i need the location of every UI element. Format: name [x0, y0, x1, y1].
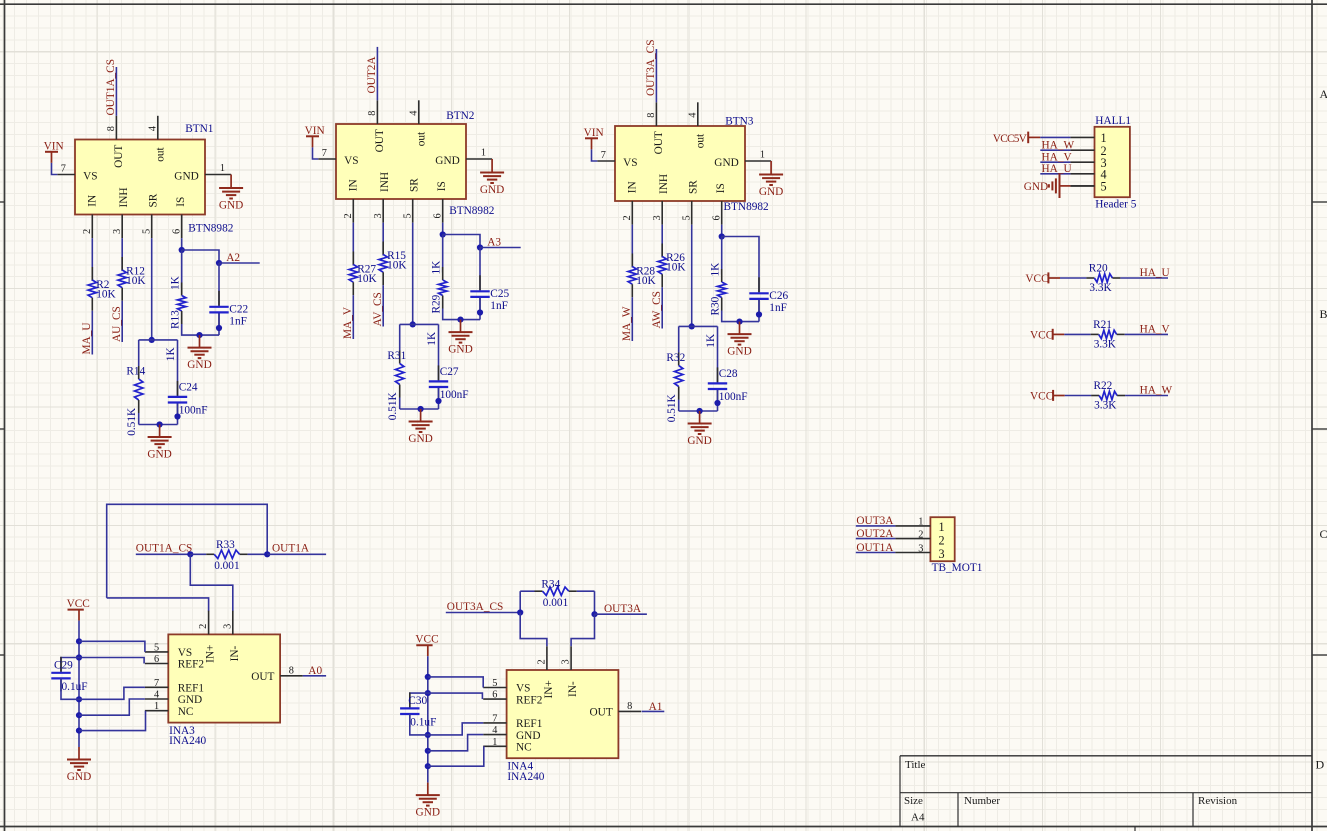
wire BTN1 pin 3 to resistor R12 — [121, 238, 123, 271]
svg-text:IN-: IN- — [567, 681, 579, 697]
HALL1 pin 4 stub — [1070, 173, 1094, 175]
junction at OUT3A_CS node — [517, 609, 523, 615]
ground symbol below INA4 VCC rail — [427, 783, 429, 796]
wire BTN2 IS junction to A3 node — [443, 235, 480, 248]
svg-text:INA240: INA240 — [507, 771, 544, 783]
BTN2 pin 1 stub — [466, 158, 492, 160]
resistor R30 1K (vertical) on IS pin — [721, 237, 723, 275]
svg-text:VS: VS — [344, 155, 358, 167]
wire BTN1 IS junction to A2 node — [182, 250, 219, 263]
svg-text:7: 7 — [154, 678, 159, 689]
power port VCC at INA4 — [427, 645, 429, 656]
BTN2 pin 6 stub — [442, 199, 444, 223]
wire net OUT3A_CS stub — [446, 612, 520, 614]
svg-text:R34: R34 — [541, 579, 560, 591]
svg-text:1K: 1K — [169, 275, 181, 290]
wire SR node horizontal rail — [139, 339, 178, 341]
wire BTN1 pin 2 to resistor R2 — [91, 238, 93, 281]
junction at OUT1A_CS node — [187, 551, 193, 557]
svg-text:REF2: REF2 — [516, 694, 543, 706]
junction at SR ground tap — [418, 406, 424, 412]
junction on VCC rail of INA3 — [76, 638, 82, 644]
svg-text:HA_W: HA_W — [1042, 139, 1075, 151]
svg-text:R22: R22 — [1094, 380, 1113, 392]
junction on VCC rail of INA4 — [425, 690, 431, 696]
resistor R31 0.51K (vertical) — [399, 324, 401, 350]
svg-text:SR: SR — [409, 178, 421, 192]
INA4 pin 1 stub — [483, 745, 506, 747]
svg-text:BTN8982: BTN8982 — [188, 222, 234, 234]
junction on VCC rail of INA3 — [76, 654, 82, 660]
wire BTN3 pin 3 to resistor R26 — [661, 225, 663, 258]
svg-text:1: 1 — [492, 737, 497, 748]
wire VCC rail to INA3 pin VS — [79, 641, 145, 652]
svg-text:SR: SR — [148, 193, 160, 207]
svg-text:OUT3A_CS: OUT3A_CS — [645, 40, 657, 97]
junction below capacitor C27 — [435, 398, 441, 404]
BTN2 pin 7 stub — [318, 158, 336, 160]
power port VCC5V at HALL1 pin 1 — [1027, 132, 1029, 144]
BTN3 pin 7 stub — [597, 160, 615, 162]
svg-text:1K: 1K — [430, 260, 442, 275]
INA4 pin 6 stub — [483, 698, 506, 700]
ground rail of SR branch — [139, 424, 178, 426]
capacitor C26 1nF — [758, 277, 760, 292]
wire OUT3A sense loop top with R34 — [519, 591, 521, 612]
junction at node A2 — [216, 260, 222, 266]
wire VCC rail to INA4 pin REF1 — [428, 723, 483, 735]
svg-text:VCC: VCC — [1030, 330, 1053, 342]
svg-text:IN-: IN- — [229, 645, 241, 661]
resistor R33 0.001 shunt (horizontal) — [190, 553, 206, 555]
svg-text:INA240: INA240 — [169, 735, 206, 747]
junction at OUT1A node — [264, 551, 270, 557]
INA4 pin 5 stub — [483, 687, 506, 689]
svg-text:6: 6 — [433, 213, 444, 218]
svg-text:R21: R21 — [1093, 319, 1112, 331]
junction at IS ground tap — [457, 317, 463, 323]
junction below capacitor C25 — [477, 309, 483, 315]
svg-text:0.001: 0.001 — [543, 597, 568, 609]
resistor R26 10K (vertical) — [661, 244, 663, 257]
junction at node A3 — [477, 244, 483, 250]
svg-text:5: 5 — [403, 213, 414, 218]
svg-text:10K: 10K — [126, 275, 146, 287]
wire OUT1A sense loop top — [107, 504, 268, 598]
svg-text:Revision: Revision — [1198, 795, 1238, 807]
svg-text:BTN8982: BTN8982 — [449, 205, 495, 217]
svg-text:1K: 1K — [426, 331, 438, 346]
svg-text:OUT1A: OUT1A — [856, 542, 894, 554]
svg-text:TB_MOT1: TB_MOT1 — [932, 562, 983, 574]
ground symbol at BTN1 pin 1 — [230, 187, 232, 189]
svg-text:Title: Title — [905, 759, 926, 771]
op-amp BTN2 BTN8982 half-bridge IC body — [336, 124, 466, 199]
svg-text:1nF: 1nF — [229, 316, 247, 328]
wire BTN1 pin 6 down to junction — [181, 238, 183, 250]
power port VIN at BTN2 — [312, 136, 314, 147]
INA3 pin 8 stub — [280, 675, 303, 677]
wire net OUT1A_CS stub — [136, 553, 191, 555]
svg-text:R31: R31 — [387, 350, 406, 362]
BTN2 pin 5 stub — [412, 199, 414, 223]
wire VCC rail to INA3 pin NC — [79, 711, 146, 731]
svg-text:OUT3A_CS: OUT3A_CS — [447, 601, 504, 613]
svg-text:VIN: VIN — [584, 127, 604, 139]
connector TB_MOT1 terminal block body — [930, 517, 954, 561]
BTN3 pin 3 stub — [661, 201, 663, 225]
svg-text:GND: GND — [714, 157, 738, 169]
svg-text:GND: GND — [759, 186, 783, 198]
svg-text:0.1uF: 0.1uF — [410, 716, 436, 728]
svg-text:OUT: OUT — [374, 129, 386, 152]
svg-text:VS: VS — [83, 171, 97, 183]
svg-text:GND: GND — [147, 449, 171, 461]
svg-text:7: 7 — [322, 148, 327, 159]
title block frame — [900, 756, 1312, 831]
BTN3 pin 4 stub — [697, 102, 699, 126]
junction below capacitor C26 — [756, 311, 762, 317]
svg-text:8: 8 — [106, 126, 117, 131]
svg-text:HA_V: HA_V — [1140, 323, 1171, 335]
svg-text:A4: A4 — [911, 812, 925, 824]
BTN2 pin 4 stub — [418, 100, 420, 124]
svg-text:NC: NC — [516, 742, 532, 754]
svg-text:VCC5V: VCC5V — [993, 133, 1028, 145]
junction on VCC rail of INA3 — [76, 696, 82, 702]
svg-text:VCC: VCC — [67, 598, 90, 610]
ground symbol below INA3 VCC rail — [78, 747, 80, 760]
wire VCC rail to INA4 pin GND — [428, 735, 483, 751]
resistor R21 3.3K (horizontal) — [1091, 333, 1099, 335]
BTN3 pin 6 stub — [721, 201, 723, 225]
wire resistor R2 to net label MA_U — [91, 311, 93, 355]
resistor R14 0.51K (vertical) — [138, 340, 140, 366]
wire R13 bottom rail to ground — [182, 324, 219, 335]
wire BTN2 pin 1 to ground — [491, 159, 493, 172]
ground symbol on SR branch of BTN3 — [699, 411, 701, 424]
svg-text:1nF: 1nF — [490, 300, 508, 312]
svg-text:3.3K: 3.3K — [1094, 400, 1117, 412]
svg-text:1: 1 — [154, 701, 159, 712]
svg-text:REF1: REF1 — [516, 718, 542, 730]
junction at IS ground tap — [736, 319, 742, 325]
svg-text:OUT: OUT — [590, 707, 613, 719]
svg-text:NC: NC — [178, 706, 194, 718]
svg-text:IN+: IN+ — [205, 645, 217, 663]
wire BTN2 pin 3 to resistor R15 — [382, 223, 384, 256]
svg-text:HA_V: HA_V — [1042, 151, 1073, 163]
wire R29 bottom rail to ground — [443, 309, 480, 320]
wire net OUT3A to TB_MOT1 pin 1 — [856, 525, 896, 527]
INA3 pin 6 stub — [145, 663, 168, 665]
wire resistor R27 to net label MA_V — [352, 295, 354, 339]
INA3 pin 1 stub — [145, 710, 168, 712]
BTN2 pin 2 stub — [352, 199, 354, 223]
connector HALL1 Header 5 body — [1095, 127, 1130, 197]
wire VCC rail to INA3 pin REF1 — [79, 687, 145, 699]
svg-text:OUT1A_CS: OUT1A_CS — [136, 543, 193, 555]
svg-text:2: 2 — [82, 229, 93, 234]
BTN1 pin 7 stub — [57, 174, 75, 176]
resistor R12 10K (vertical) — [121, 257, 123, 270]
INA3 pin 3 stub — [232, 611, 234, 635]
power port VIN at BTN1 — [51, 152, 53, 163]
svg-text:A2: A2 — [226, 252, 240, 264]
svg-text:IN: IN — [347, 179, 359, 191]
wire BTN1 pin 1 to ground — [230, 175, 232, 188]
ground symbol on SR branch of BTN1 — [159, 425, 161, 438]
INA3 pin 5 stub — [145, 651, 168, 653]
svg-text:IN: IN — [626, 181, 638, 193]
wire BTN2 pin 6 down to junction — [442, 223, 444, 235]
junction on VCC rail of INA3 — [76, 728, 82, 734]
wire net HA_U to HALL1 pin 4 — [1040, 173, 1070, 175]
svg-text:VIN: VIN — [44, 141, 64, 153]
svg-text:OUT1A: OUT1A — [272, 543, 310, 555]
svg-text:OUT: OUT — [251, 671, 274, 683]
svg-text:4: 4 — [148, 126, 159, 131]
svg-text:GND: GND — [727, 346, 751, 358]
capacitor C25 1nF — [479, 275, 481, 290]
svg-text:10K: 10K — [666, 262, 686, 274]
svg-text:4: 4 — [154, 690, 159, 701]
wire sense loop to INA3 pin 2 — [107, 598, 209, 611]
svg-text:SR: SR — [688, 180, 700, 194]
BTN3 pin 5 stub — [691, 201, 693, 225]
svg-text:1K: 1K — [709, 262, 721, 277]
svg-text:OUT1A_CS: OUT1A_CS — [105, 59, 117, 116]
svg-text:4: 4 — [688, 113, 699, 118]
wire VIN to BTN3 pin 7 — [592, 149, 598, 161]
resistor R2 10K (vertical) — [91, 267, 93, 280]
svg-text:1: 1 — [939, 520, 945, 534]
wire resistor R20 to net label HA_U — [1120, 277, 1168, 279]
wire net OUT3A stub — [595, 613, 647, 615]
wire HALL1 pin 5 to ground — [1070, 185, 1094, 187]
wire resistor R21 to net label HA_V — [1125, 333, 1168, 335]
BTN1 pin 5 stub — [151, 215, 153, 239]
svg-text:out: out — [695, 133, 707, 148]
BTN1 pin 4 stub — [157, 116, 159, 140]
svg-text:REF2: REF2 — [178, 659, 205, 671]
svg-text:R33: R33 — [216, 539, 235, 551]
svg-text:3: 3 — [112, 229, 123, 234]
svg-text:HA_U: HA_U — [1042, 163, 1072, 175]
svg-text:GND: GND — [174, 171, 198, 183]
svg-text:OUT2A: OUT2A — [856, 528, 894, 540]
capacitor C30 0.1uF decoupling — [410, 693, 428, 707]
svg-text:4: 4 — [409, 111, 420, 116]
wire SR node horizontal rail — [400, 323, 439, 325]
svg-text:HA_U: HA_U — [1140, 267, 1170, 279]
svg-text:R13: R13 — [169, 310, 181, 329]
svg-text:AW_CS: AW_CS — [651, 291, 663, 328]
svg-text:R32: R32 — [666, 352, 685, 364]
capacitor C28 100nF — [717, 326, 719, 382]
resistor R29 1K (vertical) on IS pin — [442, 235, 444, 273]
svg-text:BTN8982: BTN8982 — [724, 201, 770, 213]
INA3 pin 7 stub — [145, 686, 168, 688]
capacitor C22 1nF — [218, 291, 220, 306]
junction at SR ground tap — [157, 421, 163, 427]
wire capacitor C26 to ground rail — [758, 300, 760, 322]
svg-text:1: 1 — [481, 147, 486, 158]
power port VCC at R21 — [1052, 329, 1054, 340]
svg-text:IN: IN — [86, 195, 98, 207]
VCC rail wire at INA3 — [78, 621, 80, 747]
svg-text:6: 6 — [154, 654, 159, 665]
wire BTN3 pin 2 to resistor R28 — [631, 225, 633, 268]
svg-text:10K: 10K — [357, 273, 377, 285]
svg-text:0.001: 0.001 — [214, 560, 239, 572]
capacitor C24 100nF — [177, 340, 179, 396]
wire net OUT1A_CS from BTN1 pin 8 — [115, 67, 117, 116]
svg-text:C25: C25 — [490, 288, 509, 300]
svg-text:0.1uF: 0.1uF — [62, 681, 88, 693]
wire BTN3 pin 5 down to junction — [691, 225, 693, 327]
power port VCC at R20 — [1047, 272, 1049, 283]
ground symbol (rotated) at HALL1 pin 5 — [1060, 185, 1071, 187]
wire resistor R15 to net label AV_CS — [382, 285, 384, 326]
svg-text:A: A — [1320, 87, 1327, 101]
svg-text:MA_V: MA_V — [342, 306, 354, 339]
svg-text:4: 4 — [492, 725, 497, 736]
resistor R13 1K (vertical) on IS pin — [181, 250, 183, 288]
svg-text:7: 7 — [492, 713, 497, 724]
svg-text:1K: 1K — [165, 347, 177, 362]
svg-text:7: 7 — [61, 163, 66, 174]
INA3 pin 4 stub — [145, 698, 168, 700]
svg-text:OUT: OUT — [653, 131, 665, 154]
wire SR node horizontal rail — [679, 325, 718, 327]
wire BTN1 pin 5 down to junction — [151, 238, 153, 340]
svg-text:5: 5 — [492, 678, 497, 689]
wire resistor R26 to net label AW_CS — [661, 287, 663, 328]
BTN3 pin 1 stub — [745, 160, 771, 162]
svg-text:VS: VS — [623, 157, 637, 169]
svg-text:IN+: IN+ — [543, 680, 555, 698]
svg-text:6: 6 — [712, 215, 723, 220]
svg-text:INH: INH — [379, 172, 391, 192]
resistor R28 10K (vertical) — [631, 254, 633, 267]
wire net OUT1A to TB_MOT1 pin 3 — [856, 552, 896, 554]
svg-text:C27: C27 — [440, 366, 459, 378]
wire VIN to BTN2 pin 7 — [313, 147, 319, 159]
wire VCC to resistor R20 — [1060, 277, 1086, 279]
power port VCC at R22 — [1052, 390, 1054, 401]
svg-text:GND: GND — [178, 694, 202, 706]
svg-text:INH: INH — [658, 174, 670, 194]
INA4 pin 3 stub — [570, 646, 572, 670]
svg-text:GND: GND — [187, 359, 211, 371]
svg-text:Header 5: Header 5 — [1095, 199, 1136, 211]
svg-text:VCC: VCC — [1030, 391, 1053, 403]
svg-text:2: 2 — [198, 624, 209, 629]
wire BTN2 pin 2 to resistor R27 — [352, 223, 354, 266]
svg-text:C24: C24 — [179, 381, 198, 393]
HALL1 pin 1 stub — [1070, 136, 1094, 138]
svg-text:1K: 1K — [705, 333, 717, 348]
zone tick marks left edge — [0, 201, 5, 203]
svg-text:100nF: 100nF — [719, 391, 748, 403]
ground symbol at BTN3 pin 1 — [770, 173, 772, 175]
svg-text:GND: GND — [480, 184, 504, 196]
svg-text:100nF: 100nF — [179, 405, 208, 417]
wire BTN3 IS junction to capacitor C26 — [722, 237, 759, 293]
svg-text:2: 2 — [918, 529, 923, 540]
wire net OUT1A stub — [267, 553, 326, 555]
op-amp BTN1 BTN8982 half-bridge IC body — [75, 140, 205, 215]
wire A3 node down to capacitor C25 — [479, 248, 481, 291]
svg-text:5: 5 — [154, 642, 159, 653]
junction at BTN3 IS node — [719, 233, 725, 239]
wire VCC rail to INA4 pin REF2 — [428, 693, 483, 699]
wire BTN3 pin 6 down to junction — [721, 225, 723, 237]
svg-text:2: 2 — [537, 659, 548, 664]
svg-text:BTN1: BTN1 — [185, 123, 213, 135]
INA3 pin 2 stub — [208, 611, 210, 635]
INA4 pin 2 stub — [546, 646, 548, 670]
resistor R20 3.3K (horizontal) — [1086, 277, 1094, 279]
wire net HA_W to HALL1 pin 2 — [1040, 149, 1070, 151]
svg-text:6: 6 — [492, 690, 497, 701]
junction on VCC rail of INA4 — [425, 674, 431, 680]
svg-text:INH: INH — [118, 187, 130, 207]
wire resistor R12 to net label AU_CS — [121, 301, 123, 342]
junction at IS ground tap — [196, 332, 202, 338]
svg-text:GND: GND — [687, 435, 711, 447]
junction at OUT3A node — [591, 611, 597, 617]
wire net OUT2A from BTN2 pin 8 — [376, 47, 378, 100]
svg-text:GND: GND — [1024, 181, 1048, 193]
wire VCC to resistor R22 — [1065, 395, 1091, 397]
svg-text:Size: Size — [904, 795, 923, 807]
svg-text:out: out — [155, 147, 167, 162]
svg-text:IS: IS — [175, 197, 187, 207]
svg-text:VIN: VIN — [305, 125, 325, 137]
svg-text:OUT: OUT — [113, 145, 125, 168]
svg-text:3: 3 — [222, 624, 233, 629]
junction on VCC rail of INA4 — [425, 732, 431, 738]
BTN1 pin 3 stub — [121, 215, 123, 239]
wire net OUT3A_CS from BTN3 pin 8 — [655, 49, 657, 102]
svg-text:1nF: 1nF — [769, 302, 787, 314]
op-amp BTN3 BTN8982 half-bridge IC body — [615, 126, 745, 201]
svg-text:IS: IS — [715, 183, 727, 193]
svg-text:0.51K: 0.51K — [126, 407, 138, 436]
junction on VCC rail of INA4 — [425, 748, 431, 754]
wire OUT3A node to INA4 pin 3 — [571, 614, 594, 646]
wire capacitor C25 to ground rail — [479, 298, 481, 320]
wire BTN2 pin 5 down to junction — [412, 223, 414, 325]
svg-text:HA_W: HA_W — [1140, 385, 1173, 397]
svg-text:GND: GND — [516, 730, 540, 742]
svg-text:8: 8 — [646, 113, 657, 118]
svg-text:VCC: VCC — [1025, 273, 1048, 285]
svg-text:out: out — [416, 131, 428, 146]
svg-text:C26: C26 — [769, 290, 788, 302]
INA4 pin 4 stub — [483, 734, 506, 736]
svg-text:7: 7 — [601, 150, 606, 161]
BTN2 pin 3 stub — [382, 199, 384, 223]
wire VCC5V to HALL1 pin 1 — [1040, 136, 1070, 138]
junction at BTN1 SR node — [149, 337, 155, 343]
capacitor C29 0.1uF decoupling — [61, 658, 79, 672]
svg-text:10K: 10K — [636, 275, 656, 287]
BTN1 pin 2 stub — [91, 215, 93, 239]
svg-text:OUT2A: OUT2A — [366, 56, 378, 94]
